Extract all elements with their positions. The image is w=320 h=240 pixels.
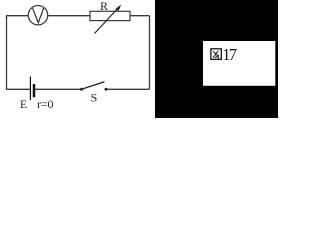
battery E long thin plate [29, 77, 31, 101]
svg-text:17: 17 [222, 45, 237, 64]
resistor R body [90, 11, 130, 20]
wire top: voltmeter to resistor [48, 15, 90, 17]
wire left vertical [6, 16, 8, 90]
svg-text:S: S [91, 91, 98, 105]
svg-text:E: E [20, 99, 27, 111]
wire top: left corner to voltmeter [6, 15, 28, 17]
svg-text:r=0: r=0 [37, 97, 54, 111]
switch S left contact dot [80, 88, 83, 91]
battery E short thick plate [33, 84, 36, 97]
wire bottom: switch to battery [35, 88, 82, 90]
switch S lever [82, 82, 105, 90]
black panel [155, 0, 278, 118]
voltmeter label V [33, 8, 44, 23]
wire bottom: right corner to switch [107, 88, 150, 90]
resistor R arrow (rheostat) [95, 8, 119, 34]
caption white box [203, 41, 275, 86]
wire right vertical [149, 16, 151, 90]
wire top: resistor to right corner [130, 15, 150, 17]
voltmeter U1 circle [28, 6, 47, 25]
wire bottom: battery to left corner [6, 88, 30, 90]
caption glyph 图 (drawn) [211, 49, 221, 60]
switch S right contact dot [105, 88, 108, 91]
svg-text:R: R [100, 0, 108, 13]
